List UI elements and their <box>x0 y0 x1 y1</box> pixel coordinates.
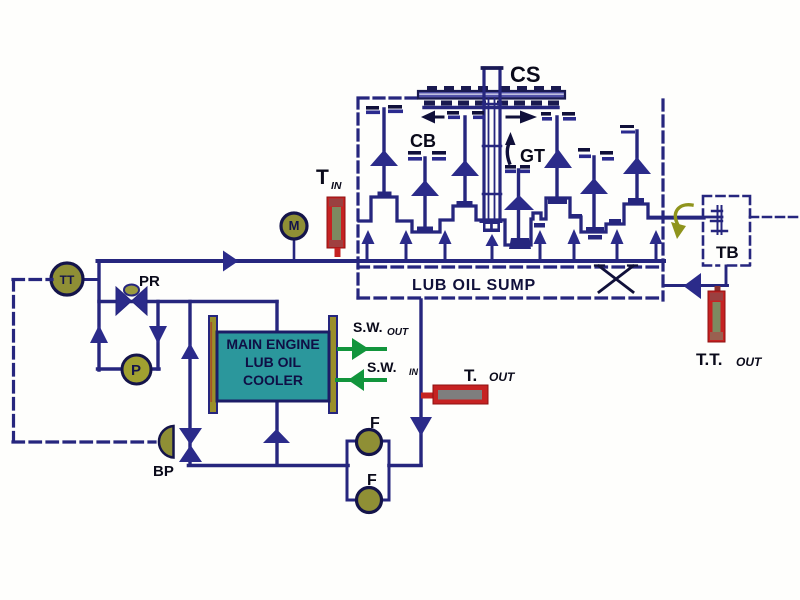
wire TB supply <box>649 216 722 219</box>
TB dashed box <box>703 196 750 266</box>
svg-text:IN: IN <box>331 180 342 192</box>
bearing pipe U8 <box>635 131 638 198</box>
svg-text:LUB OIL SUMP: LUB OIL SUMP <box>412 277 536 294</box>
svg-text:OUT: OUT <box>736 355 763 369</box>
bearing pipe U5 <box>517 170 520 238</box>
svg-text:MAIN ENGINE: MAIN ENGINE <box>226 336 319 352</box>
instrument TT temperature transmitter <box>51 263 83 295</box>
floating cap left of U6 <box>534 223 545 228</box>
wire sump drain riser <box>419 300 422 465</box>
manifold arrows <box>362 229 663 258</box>
arrow U8 <box>623 157 651 174</box>
bearing marks U3 <box>447 111 484 115</box>
bearing pipe U6 <box>555 117 558 198</box>
svg-text:S.W.: S.W. <box>353 319 383 335</box>
svg-text:IN: IN <box>409 367 419 377</box>
svg-text:M: M <box>289 218 300 233</box>
engine crankcase dashed boundary <box>358 98 663 300</box>
engine deck lower bar <box>424 106 558 109</box>
svg-text:CS: CS <box>510 62 541 87</box>
svg-text:F: F <box>370 415 380 432</box>
crankcase floor profile <box>359 197 704 245</box>
valve PR pressure regulator <box>116 285 147 316</box>
svg-text:LUB OIL: LUB OIL <box>245 354 301 370</box>
strainer X in sump <box>595 266 637 293</box>
arrow main flow right <box>223 251 239 272</box>
bearing cap U5 <box>509 238 531 249</box>
cooler ME LO cooler body <box>217 332 329 401</box>
arrow SW in <box>337 369 385 391</box>
TB dashed line right <box>750 216 797 219</box>
shoulder cap U7 right <box>609 219 621 224</box>
engine deck main bar <box>418 91 565 99</box>
svg-text:GT: GT <box>520 146 545 166</box>
bearing pipe U7 <box>592 157 595 227</box>
bearing pipe U1 <box>382 109 385 192</box>
arrow crank throw right <box>507 111 537 124</box>
svg-text:T: T <box>316 166 329 189</box>
arrow cooler inlet up <box>263 429 290 443</box>
wire pump discharge riser <box>97 263 100 371</box>
arrow U1 <box>370 150 398 166</box>
svg-text:S.W.: S.W. <box>367 359 397 375</box>
dashed control line TT to BP <box>13 280 155 443</box>
crankshaft CS column <box>480 68 503 232</box>
bearing cap U2 <box>417 227 433 234</box>
arrow U2 <box>411 180 439 196</box>
bearing pipe U2 <box>423 158 426 227</box>
svg-text:CB: CB <box>410 131 436 151</box>
engine deck castellation row 2 <box>424 101 559 106</box>
wire TB drain <box>663 266 728 286</box>
arrow sump drain down <box>410 417 432 436</box>
cooler left end plate <box>209 316 217 413</box>
wire BP riser <box>188 302 191 466</box>
TB bearing symbol <box>711 206 727 234</box>
thermometer TT out <box>708 286 725 342</box>
svg-text:TT: TT <box>60 273 75 287</box>
arrow bypass down <box>149 326 167 344</box>
arrow BP riser up <box>181 343 199 359</box>
engine deck castellation row 1 <box>427 86 561 91</box>
thermometer T out <box>421 385 488 404</box>
valve BP bypass three-way <box>159 426 202 462</box>
filter F lower <box>357 488 382 513</box>
svg-text:OUT: OUT <box>489 370 516 384</box>
bearing marks U6 <box>541 112 575 116</box>
bearing marks U1 <box>366 105 402 110</box>
arrow sump return left <box>684 273 702 299</box>
bearing cap U1 <box>378 192 392 198</box>
svg-text:COOLER: COOLER <box>243 372 303 388</box>
pump P <box>122 355 151 384</box>
svg-text:TB: TB <box>716 243 739 262</box>
instrument M gauge <box>281 213 307 239</box>
arrow rotation olive at TB <box>671 205 692 239</box>
bearing marks U8 <box>620 125 634 128</box>
wire cooler bottom connection <box>275 400 278 465</box>
wire TT stub <box>78 278 98 281</box>
arrow SW out <box>339 338 385 360</box>
svg-text:PR: PR <box>139 273 160 290</box>
arrow crank throw left <box>421 111 443 124</box>
wire bottom line right <box>389 464 421 468</box>
svg-text:F: F <box>367 472 377 489</box>
bearing marks U5 <box>505 165 530 169</box>
wire bottom line left <box>189 464 349 468</box>
shoulder cap U6 right <box>571 214 582 219</box>
wire right drop to pump <box>156 302 159 370</box>
wire filter loop <box>347 441 389 500</box>
svg-text:BP: BP <box>153 463 174 480</box>
wire main supply line <box>98 259 665 263</box>
svg-text:OUT: OUT <box>387 327 409 338</box>
arrow U3 <box>451 160 479 176</box>
svg-text:T.T.: T.T. <box>696 350 722 369</box>
bearing pipe U3 <box>463 117 466 201</box>
wire M gauge stem <box>293 237 296 260</box>
bearing caps U7 <box>586 227 604 232</box>
lub oil sump dashed tank <box>358 267 663 298</box>
arrow U6 <box>544 149 572 168</box>
bearing cap U6 <box>548 198 567 205</box>
bearing marks U7 <box>578 148 613 155</box>
arrow U7 <box>580 178 608 194</box>
bearing cap U8 <box>628 198 644 204</box>
arrow GT rotation <box>505 132 516 163</box>
cooler right end plate <box>329 316 337 413</box>
bearing cap U3 <box>457 201 473 207</box>
wire pump suction line <box>98 367 160 370</box>
svg-text:T.: T. <box>464 366 477 385</box>
wire PR bypass line <box>99 300 277 303</box>
bearing marks U2 <box>408 151 446 155</box>
svg-text:P: P <box>131 362 141 379</box>
thermometer T in <box>327 197 345 257</box>
wire cooler top connection <box>275 302 278 334</box>
arrow U5 <box>504 195 534 210</box>
filter F upper <box>357 430 382 455</box>
arrow discharge up <box>90 325 108 343</box>
